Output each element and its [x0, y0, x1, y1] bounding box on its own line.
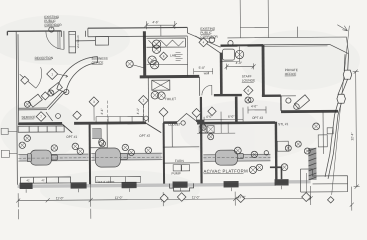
svg-text:FURN: FURN	[175, 159, 185, 163]
svg-text:TOILET: TOILET	[165, 97, 176, 101]
svg-text:5'-0": 5'-0"	[199, 66, 205, 70]
svg-text:PUMP: PUMP	[171, 171, 180, 175]
svg-text:CLOSET: CLOSET	[168, 122, 181, 126]
svg-text:SERVICE: SERVICE	[22, 115, 36, 119]
svg-text:OPT #3: OPT #3	[252, 116, 263, 120]
svg-text:11'-0": 11'-0"	[192, 195, 200, 199]
svg-text:OPT #1: OPT #1	[66, 135, 77, 139]
svg-text:4'-6": 4'-6"	[152, 20, 158, 24]
svg-text:LOUNGE: LOUNGE	[242, 78, 255, 82]
svg-text:VESTIBULE: VESTIBULE	[77, 35, 80, 49]
svg-text:11'-0": 11'-0"	[115, 196, 123, 200]
svg-text:11'-0": 11'-0"	[56, 196, 64, 200]
svg-text:4'-0": 4'-0"	[236, 61, 242, 65]
svg-text:4'-0": 4'-0"	[251, 104, 257, 108]
svg-text:AC/VAC PLATFORM: AC/VAC PLATFORM	[203, 168, 248, 173]
svg-text:12'-4": 12'-4"	[350, 133, 354, 141]
svg-text:4'-0": 4'-0"	[206, 115, 212, 119]
svg-text:CORRIDOR: CORRIDOR	[200, 35, 218, 39]
svg-text:4'-1": 4'-1"	[100, 108, 104, 114]
svg-text:RECEPTION: RECEPTION	[35, 56, 54, 60]
svg-text:OPT #2: OPT #2	[139, 134, 150, 138]
svg-text:wall: wall	[204, 71, 210, 75]
svg-text:6'-0": 6'-0"	[228, 115, 234, 119]
svg-text:CORRIDOR: CORRIDOR	[44, 23, 62, 27]
svg-text:OFFICE: OFFICE	[92, 61, 104, 65]
svg-text:OFFICE: OFFICE	[285, 72, 297, 76]
svg-text:LAB: LAB	[170, 54, 176, 58]
svg-text:STL #1: STL #1	[278, 122, 288, 126]
svg-text:11'-0": 11'-0"	[238, 195, 246, 199]
svg-text:Face of cabinet: Face of cabinet	[97, 180, 115, 184]
svg-text:4'-1": 4'-1"	[136, 108, 140, 114]
